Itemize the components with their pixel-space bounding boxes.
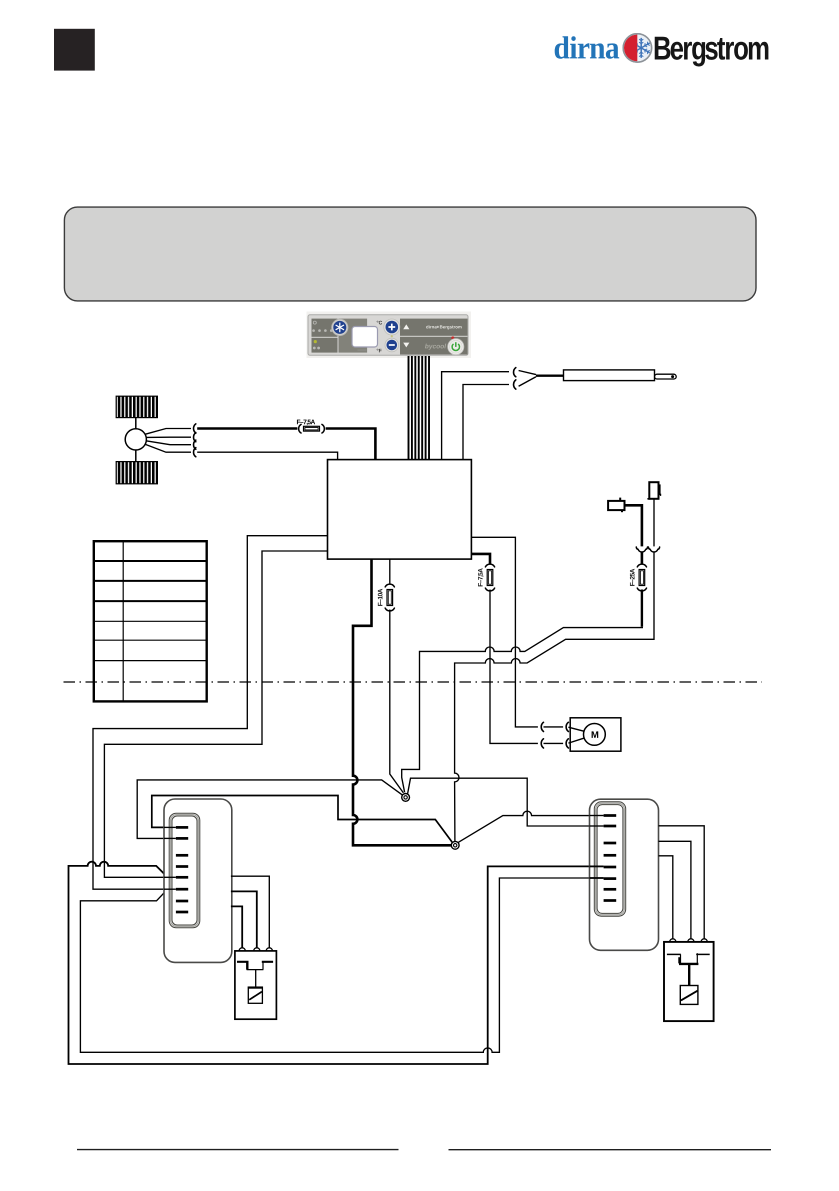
connector pump - b bbox=[566, 739, 568, 748]
wire lead-in X1 pin5 bbox=[164, 876, 176, 878]
wire node A to X2 pin2 bbox=[408, 778, 604, 826]
wire fuse F3 to pump motor - bbox=[490, 590, 538, 744]
wire lead-in X2 pin1 bbox=[590, 815, 604, 817]
connector X2 pins bbox=[604, 814, 617, 817]
wire lead-in X2 pin5 bbox=[590, 865, 604, 867]
wire X1 pin1 to node B bbox=[152, 796, 452, 843]
wire T2 to connector bbox=[653, 499, 655, 547]
wire lead-in X1 pin2 bbox=[164, 837, 176, 839]
connector inline C3 bbox=[636, 547, 647, 552]
wire ECU main feed to node B bbox=[353, 559, 451, 845]
wire X1 pin6 loop to X2 pin6 bbox=[80, 878, 603, 1052]
connector inline C4 bbox=[648, 547, 659, 552]
control panel photo bbox=[307, 312, 472, 359]
fuse F4 F-25A bbox=[637, 564, 646, 567]
wire connector to pump motor + bbox=[568, 727, 583, 731]
condenser fan motor M1 bbox=[125, 429, 146, 450]
wire ECU to pump motor + bbox=[471, 537, 538, 727]
wire sensor lead 2 bbox=[463, 385, 509, 460]
wire lead-in X2 pin6 bbox=[590, 877, 604, 879]
wire fuse F4 thick tail bbox=[641, 590, 643, 627]
wire pump - link bbox=[544, 742, 564, 744]
connector sensor lead 2 bbox=[514, 380, 516, 389]
connector X1 pins bbox=[176, 826, 188, 829]
condenser fan grille bottom bbox=[116, 462, 157, 484]
wire X1 to relay K1 86 bbox=[231, 876, 269, 948]
wire X2 to relay K2 86 bbox=[659, 826, 705, 939]
connector sensor lead 1 bbox=[514, 368, 516, 377]
wire fan supply to fuse F1 bbox=[197, 427, 297, 430]
connector fan lead 3 bbox=[194, 440, 196, 449]
fuse F3 F-7,5A bbox=[485, 564, 494, 567]
wire X2 to relay K2 30 bbox=[659, 856, 673, 939]
wire X1 pin2 to node A bbox=[137, 780, 402, 839]
wire lead-in X1 pin6 bbox=[164, 888, 176, 890]
condenser fan grille top bbox=[116, 396, 157, 417]
temperature probe cable bbox=[519, 371, 536, 387]
connector pump - a bbox=[541, 739, 543, 748]
black index square bbox=[54, 29, 95, 71]
wire connector to pump motor - bbox=[568, 738, 583, 743]
logo text Bergstrom bbox=[655, 37, 769, 67]
pump motor box bbox=[570, 718, 621, 751]
chassis separation dash-dot line bbox=[64, 681, 763, 683]
wire X1 to relay K1 30 bbox=[231, 906, 242, 948]
wire node B to X2 pin1 bbox=[458, 811, 603, 842]
wire fuse F1 to control box bbox=[326, 429, 376, 460]
wire fan lead 4 to control box bbox=[197, 452, 337, 459]
relay K1 terminal arcs bbox=[239, 948, 245, 951]
grey callout panel bbox=[64, 207, 756, 301]
node A stud bbox=[402, 794, 410, 802]
wire ECU to X1 pin6 bbox=[93, 536, 328, 890]
connector X2 housing bbox=[590, 799, 659, 950]
wire lead-in X2 pin2 bbox=[590, 825, 604, 827]
wire ECU to fuse F3 bbox=[471, 554, 490, 564]
relay K1 bbox=[235, 951, 277, 1019]
wire bundle control panel to box bbox=[408, 356, 410, 460]
wire ECU to fuse F2 bbox=[389, 559, 391, 584]
wire fuse F2 to node A bbox=[390, 610, 404, 793]
wire T1 to connector bbox=[625, 505, 642, 546]
connector fan lead 2 bbox=[194, 433, 196, 442]
wire sensor lead 1 bbox=[442, 372, 509, 460]
fuse F1 F-7,5A bbox=[299, 424, 301, 433]
wire T2 chain to node B bbox=[455, 552, 654, 842]
terminal T2 bbox=[649, 482, 658, 499]
connector X1 housing bbox=[164, 799, 232, 962]
relay K2 bbox=[664, 942, 714, 1021]
connector pump + a bbox=[541, 722, 543, 731]
connector fan lead 1 bbox=[194, 424, 196, 433]
connector X1 insert bbox=[169, 813, 200, 928]
wire lead-in X1 pin1 bbox=[164, 826, 176, 828]
wire X2 to relay K2 85 bbox=[659, 841, 691, 939]
connector fan lead 4 bbox=[194, 448, 196, 457]
electronic control unit box bbox=[328, 460, 472, 559]
wire connector to fuse F4 bbox=[641, 552, 644, 565]
node B stud bbox=[451, 841, 459, 849]
wire fan lead 3 bbox=[146, 441, 191, 445]
wire pump + link bbox=[544, 726, 564, 728]
relay K2 terminal arcs bbox=[670, 939, 676, 942]
logo text dirna bbox=[555, 36, 620, 59]
pump motor M2 bbox=[584, 724, 606, 746]
terminal T1 bbox=[608, 501, 624, 510]
wire ECU to X1 pin5 bbox=[104, 551, 327, 877]
condenser fan shaft bbox=[135, 418, 137, 462]
connector X2 insert bbox=[594, 802, 625, 916]
legend table bbox=[94, 541, 207, 701]
wire X1 to relay K1 85 bbox=[231, 891, 257, 948]
wire fan lead 1 bbox=[145, 429, 191, 435]
footer rule right bbox=[449, 1149, 772, 1151]
temperature probe tip bbox=[655, 374, 677, 379]
wire X1 pin5 ground loop to X2 pin5 bbox=[69, 862, 604, 1064]
footer rule left bbox=[77, 1149, 399, 1151]
wire fan lead 2 bbox=[146, 436, 191, 438]
wire fuse F4 to node A bbox=[402, 628, 643, 793]
connector pump + b bbox=[566, 722, 568, 731]
temperature probe body bbox=[564, 370, 655, 381]
fuse F2 F-10A bbox=[385, 584, 394, 587]
wire fan lead 4 bbox=[145, 444, 191, 452]
